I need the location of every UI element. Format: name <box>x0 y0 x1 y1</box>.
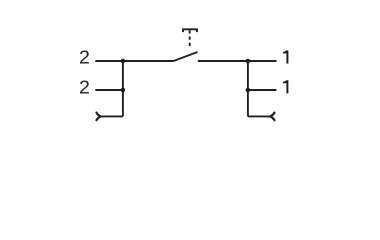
svg-text:2: 2 <box>79 47 90 68</box>
svg-text:2: 2 <box>79 77 90 98</box>
